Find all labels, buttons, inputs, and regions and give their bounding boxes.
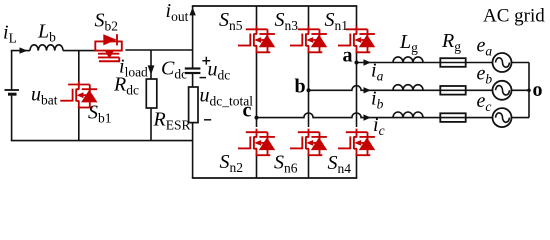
inverter leg 3 upper [356, 6, 358, 29]
svg-text:Sn5: Sn5 [219, 9, 243, 33]
transistor Sn3 [290, 26, 327, 53]
inverter bottom rail [192, 177, 357, 179]
wire Rdc branch upper [150, 50, 152, 79]
AC source eb circle [493, 81, 512, 100]
AC source ec circle [493, 108, 512, 127]
battery ubat long plate [5, 89, 20, 91]
inductor Lb [30, 45, 63, 51]
AC source ea circle [493, 53, 512, 72]
svg-text:o: o [533, 79, 543, 101]
phase a line [357, 62, 493, 64]
wire riser below Resr [192, 123, 194, 178]
inverter leg 1 lower [256, 155, 258, 178]
wire circle c to bus [512, 117, 530, 119]
inverter leg 3 middle [356, 52, 358, 127]
arrow iload [148, 65, 155, 74]
svg-text:Lg: Lg [399, 31, 418, 55]
transistor Sn1 [338, 26, 375, 53]
svg-text:RESR: RESR [153, 108, 191, 132]
grid inductor Lg phase b [393, 85, 423, 91]
svg-text:Sb2: Sb2 [95, 10, 119, 34]
svg-text:Rg: Rg [441, 30, 461, 54]
wire circle b to bus [512, 89, 530, 91]
node b dot [307, 88, 311, 92]
label plus udc [202, 57, 210, 65]
arrow ib [364, 87, 371, 93]
resistor Rg phase b [440, 86, 465, 95]
node a dot [355, 61, 359, 65]
node c dot [255, 116, 259, 120]
label minus udc [200, 77, 207, 79]
svg-text:iL: iL [3, 22, 17, 46]
resistor RESR [189, 87, 198, 123]
svg-text:a: a [343, 45, 353, 67]
transistor Sn6 [290, 129, 327, 156]
svg-text:ec: ec [477, 90, 492, 114]
transistor Sn2 [238, 129, 275, 156]
battery ubat short plate [8, 93, 17, 96]
phase c line with hops over legs 2 and 3 [257, 113, 493, 118]
grid bus vertical [528, 63, 530, 118]
inverter top rail [192, 5, 357, 7]
wire top rail left (battery corner to inductor) [11, 50, 30, 52]
wire Sb1 branch lower [78, 108, 80, 141]
svg-text:Sn4: Sn4 [328, 152, 352, 176]
wire riser cap to Resr [192, 73, 194, 87]
svg-text:Sb1: Sb1 [88, 102, 112, 126]
transistor Sn5 [238, 26, 275, 53]
wire circle a to bus [512, 62, 530, 64]
transistor Sb2 (horizontal MOSFET with body diode) [95, 34, 122, 61]
resistor Rg phase a [440, 58, 465, 67]
svg-text:Sn1: Sn1 [325, 9, 349, 33]
wire top rail (inductor to Sb2) [63, 50, 95, 52]
arrow ic [364, 114, 371, 120]
svg-text:Cdc: Cdc [161, 58, 187, 82]
arrow ia [364, 59, 371, 65]
capacitor Cdc bottom plate [185, 72, 201, 74]
wire bottom rail [11, 140, 193, 142]
grid inductor Lg phase c [393, 112, 423, 118]
svg-text:udc: udc [208, 59, 231, 83]
svg-text:Sn6: Sn6 [274, 152, 298, 176]
svg-text:Sn3: Sn3 [275, 9, 299, 33]
transistor Sn4 [338, 129, 375, 156]
wire left vertical (battery branch lower) [11, 96, 13, 141]
phase b line with hop over leg3 [309, 86, 493, 91]
wire left vertical (battery branch upper) [11, 51, 13, 90]
label minus udctotal [204, 119, 211, 121]
wire Sb1 branch upper [78, 51, 80, 85]
node o dot [527, 89, 531, 93]
grid inductor Lg phase a [393, 57, 423, 63]
inverter leg 3 lower [356, 155, 358, 178]
svg-text:b: b [295, 76, 306, 98]
svg-text:Lb: Lb [37, 21, 56, 45]
wire Rdc branch lower [150, 108, 152, 141]
wire top rail (Sb2 to riser) [125, 49, 192, 51]
arrow iout [189, 7, 195, 15]
svg-text:iout: iout [166, 0, 189, 24]
svg-text:Sn2: Sn2 [220, 151, 244, 175]
svg-text:ea: ea [477, 35, 493, 59]
arrow iL [20, 47, 28, 53]
capacitor Cdc top plate [185, 67, 201, 69]
svg-text:AC grid: AC grid [483, 6, 545, 27]
inverter leg 2 upper [308, 6, 310, 29]
inverter leg 2 middle [308, 52, 310, 127]
transistor Sb1 [60, 81, 97, 108]
svg-text:c: c [243, 100, 252, 122]
resistor Rdc [146, 79, 157, 108]
resistor Rg phase c [440, 113, 465, 122]
svg-text:eb: eb [477, 63, 493, 87]
inverter leg 2 lower [308, 155, 310, 178]
wire DC riser top [192, 6, 194, 69]
inverter leg 1 upper [256, 6, 258, 29]
svg-text:ubat: ubat [31, 84, 58, 108]
inverter leg 1 middle [256, 52, 258, 127]
